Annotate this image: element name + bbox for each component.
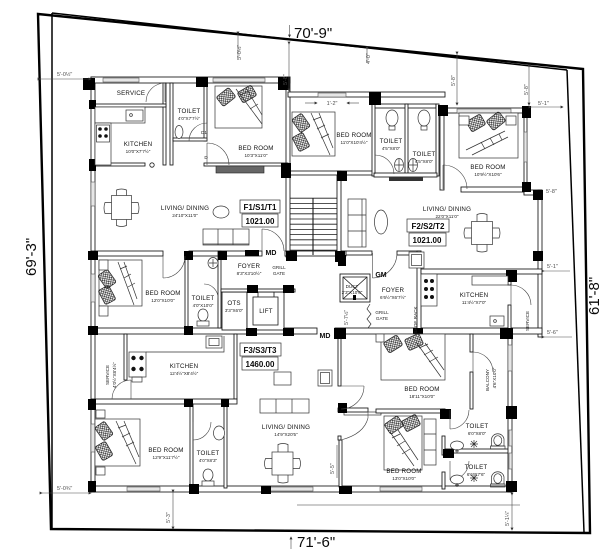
svg-text:5'-5": 5'-5" [330, 463, 336, 474]
kitchen F3 stove [129, 352, 146, 382]
column row2 x413 [413, 328, 423, 338]
door arc MD F1 [262, 229, 284, 251]
cabinet F2 foyer [409, 252, 424, 268]
wardrobe F3-2 [424, 419, 436, 465]
door arc bedroom F1 D [207, 143, 229, 165]
small table F3 a [274, 372, 291, 385]
row4 wall b [376, 409, 445, 413]
toilet vent 1 [509, 430, 512, 446]
shower right toilet2 [470, 474, 478, 482]
dim 5'-1 bottom right rotated [511, 495, 513, 530]
column left wall y159 [89, 159, 96, 171]
svg-text:13'0"X10'0": 13'0"X10'0" [392, 476, 416, 481]
window F1 bedroom top [213, 78, 265, 82]
svg-text:12'0"X10'0": 12'0"X10'0" [151, 298, 175, 303]
kitchen F3 counter edge [146, 336, 224, 352]
kitchen F1 sink [126, 110, 143, 121]
bed F2 right [459, 111, 518, 158]
window F3 bedroom bottom [127, 487, 160, 491]
svg-text:KITCHEN: KITCHEN [460, 292, 489, 299]
wall stub bedroom2 door [338, 436, 341, 440]
column right wall y251 [533, 251, 543, 261]
dim 5'-1 right y268 [544, 270, 570, 272]
door arc toilet F1 D1 [189, 123, 207, 141]
kitchen F2 counter left [421, 274, 437, 306]
svg-text:4'5"X8'0": 4'5"X8'0" [415, 159, 434, 164]
door arc kitchen-service F2 [511, 285, 531, 305]
svg-text:61'-8": 61'-8" [586, 277, 600, 315]
column row1 x286 [286, 251, 297, 261]
svg-text:8'3"X3'10½": 8'3"X3'10½" [237, 270, 262, 276]
bench F3 [260, 399, 309, 413]
bed F1 top [215, 85, 262, 128]
svg-text:F3/S3/T3: F3/S3/T3 [244, 346, 277, 355]
dining table F1 [104, 189, 139, 227]
F1 toilet1 right wall [204, 83, 207, 141]
svg-text:BED ROOM: BED ROOM [470, 164, 505, 171]
svg-text:LIVING/ DINING: LIVING/ DINING [161, 205, 209, 212]
column service/toilet [196, 77, 208, 87]
svg-text:5'-1": 5'-1" [547, 264, 558, 270]
svg-text:5'-8": 5'-8" [524, 84, 530, 95]
svg-text:14'9"X20'5": 14'9"X20'5" [274, 432, 298, 437]
column MD threshold [245, 250, 259, 256]
dresser F1 bedroom [216, 166, 264, 173]
column top-left [83, 78, 95, 90]
door arc foyer F2 [373, 253, 398, 278]
kitchen F3 sink [206, 336, 222, 348]
washbasin F3-2 [214, 426, 225, 440]
door arc toilet F2-2 [443, 165, 467, 189]
F2 foyer wall b [397, 251, 421, 255]
row4 wall a [338, 408, 368, 412]
washbasin F2 toilet1 [386, 110, 398, 130]
svg-text:69'-3": 69'-3" [23, 238, 40, 276]
svg-text:5'-7½": 5'-7½" [343, 310, 350, 325]
svg-text:SERVICE: SERVICE [525, 311, 530, 331]
duct box inner [343, 277, 367, 299]
right step wall y190 [524, 190, 542, 195]
right toilets divider wall [445, 449, 510, 453]
svg-text:TOILET: TOILET [192, 295, 215, 302]
F3 master bedroom left wall [338, 334, 341, 386]
balcony right window [508, 345, 512, 371]
duct tick [353, 295, 356, 300]
column right wall y481 [506, 481, 517, 492]
column toilets F2 left [369, 92, 381, 105]
door arc toilet F2-1 [375, 155, 394, 174]
duct box F2 [340, 274, 370, 302]
door arc balcony [473, 352, 493, 372]
svg-text:5'-6": 5'-6" [547, 330, 558, 336]
top wall F2-left bedroom [288, 92, 445, 97]
sofa F2 [348, 199, 366, 247]
bed F1 mid-left [97, 260, 142, 306]
svg-text:4'6"X10'0": 4'6"X10'0" [492, 367, 497, 388]
window service top [103, 78, 139, 82]
column kitchen F2 right [506, 270, 517, 282]
svg-text:5'-0¾": 5'-0¾" [57, 486, 72, 492]
F3 kitchen right wall [234, 334, 237, 399]
svg-text:SHOE RACK: SHOE RACK [413, 306, 418, 334]
svg-text:6'0"X8'0": 6'0"X8'0" [468, 431, 487, 436]
WC toilet F1 washbasin [175, 126, 183, 139]
F2 kitchen top wall [421, 269, 542, 274]
column bottom x261 [261, 486, 271, 494]
F3 kitchen/service divider [124, 334, 127, 380]
svg-text:MD: MD [320, 333, 331, 340]
svg-text:71'-6": 71'-6" [297, 534, 335, 551]
svg-text:TOILET: TOILET [178, 108, 201, 115]
window F1 bedroom2 left [91, 274, 95, 302]
svg-text:BED ROOM: BED ROOM [404, 386, 439, 393]
right wall mid x538 [538, 190, 542, 337]
F3 toilet2 left wall [190, 404, 193, 488]
right wall upper x524 [524, 108, 527, 194]
dim 5'-0 top-left [40, 78, 91, 80]
window F2-right bedroom top [457, 109, 511, 113]
svg-text:4'5"X8'0": 4'5"X8'0" [382, 146, 401, 151]
svg-text:FOYER: FOYER [382, 287, 405, 294]
F2 kitchen right wall b [508, 305, 511, 332]
svg-text:TOILET: TOILET [466, 423, 489, 430]
column row3 left [88, 399, 96, 410]
F2 toilet right wall [436, 104, 439, 176]
svg-text:5'-1": 5'-1" [538, 101, 549, 107]
svg-text:24'10"X11'0": 24'10"X11'0" [172, 213, 198, 218]
kitchen F1 counter top [95, 107, 145, 123]
svg-text:D1: D1 [201, 130, 207, 135]
duct X hatch [343, 277, 367, 299]
dim 5'-8 corner right [528, 67, 530, 105]
door arc bedroom F3-1 [341, 386, 364, 409]
svg-text:4'0"X8'3": 4'0"X8'3" [199, 458, 218, 463]
staircase center rail [312, 198, 314, 255]
window F3 bedroom2 bottom [380, 487, 422, 491]
service right wall [163, 83, 166, 165]
svg-text:5'-8": 5'-8" [451, 75, 457, 86]
window F2-left bedroom top [318, 93, 346, 97]
cabinet F3 [318, 370, 332, 386]
kitchen F1 stove [97, 125, 110, 142]
column service F2 bottom [500, 328, 513, 339]
lift door marks [258, 292, 274, 297]
door arc bedroom F3-2 [341, 410, 368, 440]
svg-text:4'0½"X8'4½": 4'0½"X8'4½" [111, 362, 117, 388]
flat box F1 [240, 200, 280, 213]
column row2 MD right [334, 328, 346, 339]
side table F3 master [376, 334, 384, 342]
bed2/toilet divider b [442, 436, 445, 455]
F2-right bedroom bottom wall [461, 187, 524, 192]
outside step line bottom [297, 504, 520, 506]
side table F1mid a [99, 260, 108, 270]
column left wall y100 [89, 100, 96, 109]
WC F1-2 [197, 309, 209, 326]
svg-text:F1/S1/T1: F1/S1/T1 [244, 203, 277, 212]
F2 toilets bottom wall [374, 173, 437, 177]
column bottom-left [88, 481, 96, 492]
column row1 x184 [184, 251, 193, 260]
row1 wall segment b [189, 251, 262, 256]
site boundary inner top [52, 13, 567, 70]
F1 toilet1 left wall [170, 83, 173, 165]
svg-text:OTS: OTS [227, 300, 240, 307]
center wall x286 [286, 77, 290, 257]
svg-text:4'0"X10'0": 4'0"X10'0" [193, 303, 214, 308]
door arc toilet F1-2 [204, 284, 218, 298]
oval table F2 [375, 210, 388, 234]
column row3 x184 [184, 399, 193, 407]
bed F3 left-bottom [94, 419, 140, 466]
dim 5'-8 top center [288, 44, 290, 91]
svg-text:5'-1¼": 5'-1¼" [505, 511, 511, 526]
top wall F1 [91, 77, 290, 83]
window F3 bedroom left [91, 424, 95, 452]
door arc toilet F3-2 [193, 422, 211, 440]
kitchen wall end circle [150, 163, 154, 167]
column center mid [281, 163, 291, 178]
WC F2 toilet1 [395, 159, 404, 172]
dark ledge below toilets [389, 177, 423, 181]
svg-text:6'6½"X6'7½": 6'6½"X6'7½" [380, 294, 406, 300]
column row3 x221 [221, 399, 229, 407]
column row1 left [88, 251, 98, 260]
dim 5'-8 top right [456, 54, 458, 105]
window F2-right bedroom right wall [524, 132, 527, 162]
kitchen F1 counter left [95, 123, 111, 165]
svg-text:1460.00: 1460.00 [246, 360, 275, 369]
column row4 x440 [440, 409, 451, 419]
balcony left wall b [470, 372, 473, 409]
window living F1 left [91, 182, 95, 206]
svg-text:10'0"X7'7½": 10'0"X7'7½" [126, 148, 151, 154]
column F2-right bed left [438, 105, 448, 116]
door arc service [146, 83, 165, 102]
svg-text:22'0"X11'0": 22'0"X11'0" [435, 214, 458, 219]
F2 toilet left wall [372, 104, 375, 176]
service bottom wall [91, 104, 166, 107]
bed2/toilet divider a [442, 409, 445, 418]
foyer/OTS divider [221, 289, 295, 292]
svg-text:TOILET: TOILET [413, 151, 436, 158]
washbasin right toilet2 [451, 475, 464, 487]
kitchen F2 stove [424, 279, 434, 299]
svg-text:KITCHEN: KITCHEN [124, 141, 153, 148]
window F3 living bottom [263, 487, 313, 491]
column toilets divider right [443, 449, 454, 458]
column F2-right bed right [522, 106, 531, 118]
sofa F1 [203, 229, 249, 245]
flat box F3 [240, 343, 281, 356]
shoe rack wall [417, 251, 421, 337]
column row2 x283 [283, 328, 294, 336]
svg-text:11'4½"X7'0": 11'4½"X7'0" [462, 299, 487, 305]
svg-text:4'0"X7'7½": 4'0"X7'7½" [178, 115, 200, 121]
kitchen F2 sink box [490, 316, 504, 326]
washbasin foyer F1 [208, 258, 218, 269]
F2 foyer wall a [346, 251, 372, 255]
side table F2-right a [459, 116, 469, 125]
svg-text:GRILL: GRILL [272, 265, 286, 270]
side table F3 a [96, 410, 105, 418]
F2-right bedroom left wall [440, 108, 444, 190]
door arc bedroom F1-2 [163, 256, 185, 278]
right wall lower x508 [508, 333, 512, 492]
svg-text:LIVING/ DINING: LIVING/ DINING [262, 424, 310, 431]
F1 toilet2 right wall [218, 251, 221, 328]
row1 wall segment c [285, 251, 346, 256]
row1 wall segment a [91, 251, 163, 256]
svg-text:SERVICE: SERVICE [105, 365, 110, 385]
column row2 left [88, 326, 98, 335]
toilets top wall F2 [374, 104, 436, 108]
column stair top right [337, 171, 347, 181]
row3 wall [91, 399, 237, 404]
svg-text:5'-8": 5'-8" [283, 74, 289, 85]
svg-text:6'6"X7'6": 6'6"X7'6" [467, 472, 486, 477]
column lift top-right [283, 285, 294, 293]
OTS box [222, 292, 247, 330]
stair top wall [286, 171, 375, 175]
side table F1mid b [99, 306, 108, 316]
svg-text:SERVICE: SERVICE [117, 90, 145, 97]
svg-text:5'-3": 5'-3" [166, 512, 172, 523]
svg-text:TOILET: TOILET [380, 138, 403, 145]
svg-text:FOYER: FOYER [238, 263, 261, 270]
flat box F2 [407, 219, 449, 232]
door arc toilet F3-r1 [450, 410, 469, 429]
svg-text:GM: GM [375, 272, 386, 279]
dim 5'-5 bed2 rotated [336, 445, 338, 478]
svg-text:1021.00: 1021.00 [413, 236, 442, 245]
left exterior wall [91, 77, 95, 492]
svg-text:BED ROOM: BED ROOM [238, 145, 273, 152]
dim 5'-0 bottom-left [42, 492, 91, 494]
beam over bedroom2 door [344, 412, 381, 415]
svg-text:1021.00: 1021.00 [246, 217, 275, 226]
lift room [247, 292, 284, 330]
WC right toilet2 [491, 472, 506, 487]
F1 bedroom bottom wall [204, 163, 288, 166]
svg-text:TOILET: TOILET [465, 464, 488, 471]
svg-text:LIVING/ DINING: LIVING/ DINING [423, 206, 471, 213]
bedroom2 F3 left wall lower [339, 440, 342, 487]
bed F3-2 bottom-right [384, 414, 422, 470]
svg-text:1'-2": 1'-2" [327, 101, 338, 107]
shower right toilet1 [470, 440, 478, 448]
WC F2 toilet2 [409, 159, 418, 172]
svg-text:GRILL: GRILL [375, 310, 389, 315]
top wall F2-right bedroom [440, 108, 525, 113]
svg-text:GATE: GATE [273, 271, 285, 276]
svg-text:BED ROOM: BED ROOM [336, 132, 371, 139]
svg-text:10'9½"X10'6": 10'9½"X10'6" [474, 171, 502, 177]
column right wall y190 [533, 190, 543, 200]
svg-text:5'-8": 5'-8" [546, 189, 557, 195]
dining table F2 [464, 214, 500, 253]
svg-text:DUCT: DUCT [346, 284, 359, 289]
column bedroom right mid [522, 182, 531, 192]
row2 wall left segment [91, 328, 317, 334]
svg-text:18'11"X10'0": 18'11"X10'0" [409, 394, 435, 399]
svg-text:LIFT: LIFT [259, 308, 273, 315]
svg-text:GATE: GATE [376, 316, 388, 321]
column bottom x189 [189, 484, 199, 494]
boundary tick a [237, 34, 239, 58]
F1 toilet1 bottom wall [173, 138, 207, 141]
oval table F1 [213, 206, 229, 218]
door arc toilet F3-r2 [450, 461, 469, 480]
svg-text:70'-9": 70'-9" [294, 25, 332, 42]
F3 toilet2 right wall [224, 404, 227, 488]
door arc service F3 [112, 380, 131, 399]
stair right wall [337, 171, 341, 257]
svg-text:KITCHEN: KITCHEN [170, 363, 199, 370]
svg-text:10'3"X11'0": 10'3"X11'0" [244, 153, 267, 158]
bed F3 master [381, 333, 445, 380]
toilet vent 2 [509, 453, 512, 469]
dim 5'-6 right y333 [544, 336, 572, 338]
column F1 top-right [278, 77, 290, 90]
svg-text:5'-0½": 5'-0½" [236, 45, 243, 60]
svg-text:F2/S2/T2: F2/S2/T2 [412, 222, 445, 231]
WC right toilet1 [491, 434, 506, 449]
svg-text:TOILET: TOILET [197, 450, 220, 457]
WC F3-2 [202, 469, 214, 486]
F1 toilet2 left wall [185, 257, 188, 328]
svg-text:BED ROOM: BED ROOM [148, 447, 183, 454]
column stair bottom right [338, 255, 346, 266]
column row2 x184 [184, 326, 193, 335]
bottom exterior wall [91, 486, 512, 492]
column right wall y406 [506, 406, 517, 419]
washbasin F2 toilet2 [418, 110, 430, 130]
kitchen F2 counter top [472, 276, 508, 285]
svg-text:11'0"X10'4½": 11'0"X10'4½" [341, 139, 368, 145]
bed F2 left [291, 112, 335, 156]
bed2/toilet divider c [442, 472, 445, 489]
balcony left wall a [470, 334, 473, 352]
side table F2-right b [506, 116, 516, 125]
column row1 x218 [218, 251, 227, 260]
svg-text:2'3"X10'0": 2'3"X10'0" [342, 290, 363, 295]
dim 5'-1 right top [531, 106, 563, 108]
site boundary inner left [51, 13, 53, 529]
lift inner box [253, 297, 278, 325]
F2 toilet mid wall [405, 104, 408, 176]
F2 kitchen right wall a [508, 274, 511, 285]
row2 wall right segment [335, 328, 542, 334]
svg-text:4'-0": 4'-0" [366, 53, 372, 64]
svg-text:3'3"X6'0": 3'3"X6'0" [225, 308, 244, 313]
dining table F3 [265, 444, 301, 484]
F1 kitchen bottom wall [91, 163, 145, 166]
staircase steps [290, 198, 337, 250]
svg-text:MD: MD [266, 250, 277, 257]
washbasin right toilet1 [451, 441, 464, 453]
column row2 x246 [246, 328, 257, 336]
column row1 x335 [335, 251, 345, 262]
grill gate zigzag [367, 304, 371, 328]
svg-text:BED ROOM: BED ROOM [386, 468, 421, 475]
column bottom x339 [339, 486, 352, 494]
column lift top-left [247, 285, 258, 293]
column row4 x338 [338, 403, 347, 413]
side table F3 b [96, 467, 105, 475]
svg-text:BED ROOM: BED ROOM [145, 290, 180, 297]
svg-text:12'9"X11'7½": 12'9"X11'7½" [153, 454, 180, 460]
